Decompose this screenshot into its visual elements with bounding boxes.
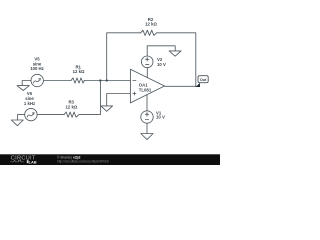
wire op-amp bottom power pin to V1 xyxy=(146,95,148,111)
svg-text:http://circuitlab.com/cccc/4p6: http://circuitlab.com/cccc/4p6r457dd/ xyxy=(57,159,109,163)
wire feedback riser node A up to R2 xyxy=(107,33,141,81)
op-amp non-inverting pin mark xyxy=(133,92,136,95)
label R2 12 kOhm xyxy=(145,17,157,27)
wire V5 right lead to R1 xyxy=(43,80,71,82)
svg-text:1 kHz: 1 kHz xyxy=(24,101,35,106)
wire R2 to output riser xyxy=(157,33,196,87)
wire V2 top to ground xyxy=(147,46,175,56)
resistor R3 xyxy=(64,112,79,117)
op-amp inverting pin mark xyxy=(133,80,136,82)
ground (V2) xyxy=(169,51,181,56)
label R3 12 kOhm xyxy=(65,99,77,109)
svg-text:Out: Out xyxy=(200,78,207,82)
voltage source V2 (DC) xyxy=(141,56,153,68)
voltage source V1 (DC) xyxy=(141,111,153,123)
svg-text:100 Hz: 100 Hz xyxy=(30,66,44,71)
resistor R1 xyxy=(71,78,84,83)
wire R3 to riser xyxy=(79,114,100,116)
footer bar xyxy=(0,154,220,165)
svg-text:12 kΩ: 12 kΩ xyxy=(65,105,77,110)
label V1 10 V xyxy=(156,111,165,120)
wire V1 bottom to ground xyxy=(146,123,148,133)
label V6 sine 1 kHz xyxy=(24,91,35,106)
svg-text:TL081: TL081 xyxy=(139,88,152,93)
voltage source V6 (sine) xyxy=(25,108,37,120)
wire V5 left lead to ground xyxy=(22,81,31,86)
wire R3 riser up to node A xyxy=(99,81,101,115)
ground (V1) xyxy=(141,134,153,140)
wire V6 left lead to ground xyxy=(18,115,25,120)
label V2 10 V xyxy=(157,57,166,67)
op-amp OA1 TL081 xyxy=(130,69,164,103)
wire + input to ground stub xyxy=(107,94,131,106)
wire op-amp output to node Out xyxy=(165,85,196,87)
svg-text:12 kΩ: 12 kΩ xyxy=(145,22,157,27)
label R1 12 kOhm xyxy=(73,64,85,74)
ground (V6) xyxy=(11,120,23,126)
svg-text:10 V: 10 V xyxy=(157,62,166,67)
resistor R2 xyxy=(141,30,157,35)
net flag Out xyxy=(196,76,209,87)
node A junction dot (feedback riser) xyxy=(106,79,108,81)
svg-text:LAB: LAB xyxy=(29,159,37,164)
svg-text:12 kΩ: 12 kΩ xyxy=(73,69,85,74)
voltage source V5 (sine) xyxy=(31,74,43,86)
svg-text:10 V: 10 V xyxy=(156,115,165,120)
ground (V5) xyxy=(17,86,29,91)
wire op-amp top power pin to V2 xyxy=(146,68,148,78)
node A junction dot (R3 riser) xyxy=(99,79,101,81)
wire V6 right lead to R3 xyxy=(37,114,64,116)
label V5 sine 100 Hz xyxy=(30,56,44,71)
label OA1 TL081 xyxy=(139,83,152,93)
wire R1 to op-amp inverting input (node A) xyxy=(84,80,130,82)
ground (op-amp + input) xyxy=(101,106,113,111)
